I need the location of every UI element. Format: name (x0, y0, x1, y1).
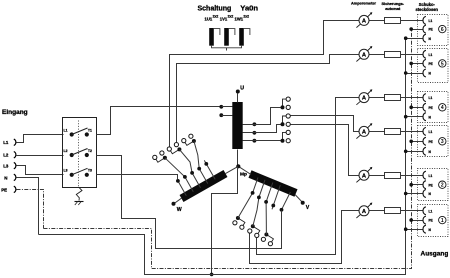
svg-text:2x2: 2x2 (243, 14, 249, 18)
svg-text:L2: L2 (64, 149, 68, 153)
tap dot U right y132.8 (253, 131, 257, 135)
svg-text:2: 2 (441, 183, 444, 189)
wire fuse to socket 5 (401, 54, 423, 56)
wire N bottom (39, 39, 406, 275)
wire T2 to V (97, 156, 282, 249)
wire to ammeter A1 (360, 210, 385, 212)
fuse F6 (385, 18, 401, 24)
svg-text:V: V (306, 205, 310, 211)
wire fuse to socket 2 (401, 175, 423, 177)
tap T2 dot on V (282, 192, 291, 210)
wire V2 far circle to A4 (257, 98, 360, 255)
link group U1 (283, 99, 289, 107)
wire U top terminal (237, 94, 239, 103)
wire PE bus to socket 1 (412, 220, 423, 222)
svg-text:PE: PE (429, 62, 433, 66)
tap stub dot U left lower (219, 113, 223, 117)
svg-text:L3: L3 (3, 164, 9, 169)
vector group symbol Ya0n (209, 28, 214, 46)
wire V2 near circle to A1 (250, 211, 360, 264)
svg-text:T2: T2 (88, 149, 92, 153)
wire N bus to socket 2 (406, 193, 423, 195)
svg-text:L1: L1 (429, 209, 433, 213)
wire N bus to socket 6 (406, 38, 423, 40)
svg-text:L1: L1 (429, 174, 433, 178)
wire to ammeter A5 (360, 54, 385, 56)
wire star to N line (212, 167, 238, 275)
tap dot U right y140.7 (253, 139, 257, 143)
wire W tap3 feed (194, 141, 208, 184)
wire W tap2 feed (179, 149, 200, 187)
wire N bus to socket 3 (406, 151, 423, 153)
wire U tap1 to link U1 (243, 108, 281, 125)
svg-text:2x2: 2x2 (213, 14, 219, 18)
wire V outer stub (295, 195, 302, 202)
svg-text:N: N (4, 175, 7, 180)
svg-text:Schaltung: Schaltung (198, 5, 232, 12)
wire V tap1 feed (238, 177, 258, 218)
tap T1 dot on U (219, 105, 223, 109)
fuse F5 (385, 52, 401, 58)
ammeter A3 (359, 126, 369, 136)
ammeter A1 (359, 206, 369, 216)
wire fuse to socket 4 (401, 97, 423, 99)
wire PE bus to socket 5 (412, 63, 423, 65)
fuse F3 (385, 129, 401, 135)
wire U tap2 to link U2 (243, 125, 281, 133)
svg-text:automat: automat (385, 6, 401, 11)
link group V3 (266, 235, 273, 244)
terminal U dot (236, 90, 240, 94)
switch coupling dashed (78, 121, 80, 188)
socket box 1 (418, 205, 449, 237)
terminal V dot (301, 201, 305, 205)
svg-text:Ya0n: Ya0n (240, 3, 258, 12)
svg-text:T3: T3 (88, 169, 92, 173)
wire V tap3 feed (266, 183, 273, 235)
tap dot U right y124.3 (253, 122, 257, 126)
socket box 2 (418, 169, 449, 201)
svg-text:L3: L3 (64, 169, 68, 173)
wire L3 to switch (17, 166, 64, 175)
wire N bus to socket 5 (406, 73, 423, 75)
svg-text:T1: T1 (88, 128, 92, 132)
wire PE bus to socket 3 (412, 141, 423, 143)
svg-text:PE: PE (429, 140, 433, 144)
socket box 6 (418, 15, 449, 46)
svg-text:L1: L1 (429, 19, 433, 23)
wire W outer stub (175, 198, 182, 203)
svg-text:5: 5 (441, 61, 444, 67)
svg-text:Mp: Mp (240, 172, 247, 178)
wire PE bus to socket 6 (412, 29, 423, 31)
wire fuse to socket 1 (401, 210, 423, 212)
ammeter A6 (359, 15, 369, 25)
wire N down-left (17, 178, 39, 235)
fuse F1 (385, 208, 401, 214)
wire to ammeter A2 (360, 175, 385, 177)
ammeter A4 (359, 93, 369, 103)
wire PE bottom dash-dot (44, 30, 412, 269)
wire fuse to socket 3 (401, 131, 423, 133)
svg-text:W: W (177, 207, 182, 213)
svg-text:Amperemeter: Amperemeter (351, 1, 377, 6)
wire N bus to socket 4 (406, 116, 423, 118)
svg-text:PE: PE (429, 219, 433, 223)
svg-text:Ausgang: Ausgang (421, 250, 449, 257)
wire U tap3 to link U3 (243, 140, 281, 142)
ground symbol (76, 187, 82, 200)
socket box 3 (418, 126, 449, 157)
winding V bar (248, 170, 297, 196)
star stub to V (238, 166, 251, 174)
svg-text:3: 3 (441, 139, 444, 145)
wire L1 to switch (17, 135, 64, 143)
svg-text:PE: PE (429, 106, 433, 110)
wire V tap2 feed (253, 180, 265, 226)
link group U2 (283, 116, 289, 124)
svg-text:PE: PE (429, 183, 433, 187)
link group V2 (253, 226, 260, 235)
star stub to W (225, 166, 238, 174)
wire T1 to U (97, 107, 220, 135)
svg-text:L1: L1 (429, 96, 433, 100)
wire W tap1 feed (165, 158, 193, 192)
link group U3 (283, 132, 289, 140)
winding U bar (232, 102, 242, 149)
wire to ammeter A6 (360, 20, 385, 22)
socket box 5 (418, 49, 449, 83)
main switch Q1 (63, 118, 97, 188)
wire U bar to star (237, 150, 239, 167)
svg-text:steckdosen: steckdosen (416, 7, 439, 12)
tap stub dot W upper (204, 160, 215, 179)
wire PE bus to socket 2 (412, 184, 423, 186)
link group W1 (155, 157, 165, 162)
wire U2 upper circle to A3 (291, 116, 360, 132)
svg-text:L1: L1 (64, 128, 68, 132)
wire fuse to socket 6 (401, 20, 423, 22)
svg-text:PE: PE (1, 187, 7, 192)
wire W2 far circle to A6 (170, 21, 360, 147)
ammeter A2 (359, 170, 369, 180)
link group W2 (169, 149, 179, 154)
wire L2 to switch (17, 155, 64, 157)
svg-text:1W1: 1W1 (235, 16, 244, 21)
tap stub dot V lower (272, 185, 280, 209)
ammeter A5 (359, 49, 369, 59)
junction star-N (210, 273, 214, 277)
svg-text:1: 1 (441, 218, 444, 224)
socket box 4 (418, 92, 449, 123)
wire W2 near circle to A5 (177, 55, 360, 143)
wire N bus to socket 1 (406, 229, 423, 231)
svg-text:L1: L1 (3, 140, 9, 145)
svg-text:2x2: 2x2 (228, 14, 234, 18)
fuse F4 (385, 95, 401, 101)
wire T3 to W (97, 175, 178, 180)
svg-text:1U1: 1U1 (205, 16, 213, 21)
wire PE dash-dot down-left (17, 190, 44, 229)
tap T3 dot on W (178, 181, 186, 196)
svg-text:6: 6 (441, 27, 444, 33)
link group W3 (184, 141, 194, 146)
svg-text:PE: PE (429, 28, 433, 32)
star point Mp dot (236, 164, 240, 168)
wire to ammeter A4 (360, 97, 385, 99)
svg-text:4: 4 (441, 105, 444, 111)
link group V1 (238, 218, 245, 227)
svg-text:U: U (240, 85, 244, 91)
svg-text:L1: L1 (429, 53, 433, 57)
wire to ammeter A3 (360, 131, 385, 133)
winding W bar (180, 170, 228, 202)
terminal W dot (172, 202, 176, 206)
svg-text:Eingang: Eingang (2, 109, 28, 116)
svg-text:L1: L1 (429, 130, 433, 134)
fuse F2 (385, 173, 401, 179)
wire U2 lower circle to A2 (291, 125, 360, 176)
wire PE bus to socket 4 (412, 107, 423, 109)
svg-text:L2: L2 (3, 152, 9, 157)
